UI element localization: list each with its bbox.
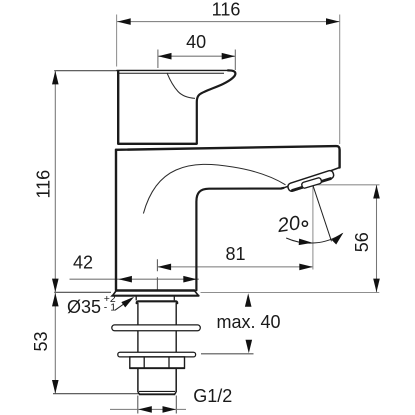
spout angled end face (284, 168, 340, 188)
base bottom edge (116, 289, 194, 291)
svg-text:Ø35: Ø35 (67, 297, 101, 317)
svg-text:40: 40 (186, 32, 206, 52)
nut (130, 357, 185, 368)
svg-text:- 1: - 1 (104, 302, 116, 314)
water stream direction line 20deg (313, 185, 332, 241)
extension line right of top 116 dim (339, 15, 341, 145)
dimension line G1/2 thread (110, 408, 186, 410)
dimension line 53 left vertical (54, 292, 56, 393)
aerator axis vertical line (312, 186, 314, 270)
washer 1 (112, 325, 201, 331)
shank mid section (138, 331, 176, 352)
washer 2 (118, 352, 196, 357)
svg-text:G1/2: G1/2 (193, 386, 232, 406)
lever surface thin curve (167, 73, 195, 99)
svg-text:max. 40: max. 40 (217, 312, 281, 332)
G1/2 extension lines (138, 396, 177, 414)
thread bottom reference line (53, 393, 140, 395)
lever top edge (117, 69, 228, 71)
handle block (117, 72, 119, 144)
base skirt (113, 291, 199, 296)
dimension line 116 left vertical (54, 71, 56, 292)
centre line of faucet axis (156, 259, 158, 291)
dimension line 81 (158, 266, 313, 268)
body surface thin curve (143, 164, 285, 213)
dimension line 40 (158, 55, 235, 57)
svg-text:42: 42 (73, 253, 93, 273)
body top edge and spout (116, 146, 340, 167)
aerator outlet (301, 177, 322, 188)
dimension line 42 (70, 278, 199, 280)
dimension line 56 (376, 185, 378, 292)
mounting surface reference line left (54, 291, 111, 293)
shank upper section (138, 303, 176, 325)
max. 40 annotation (201, 353, 254, 355)
svg-text:53: 53 (31, 331, 51, 351)
spout underside and column (196, 188, 283, 290)
svg-text:56: 56 (352, 232, 372, 252)
lever tip and underside curve (197, 70, 236, 143)
svg-text:81: 81 (225, 244, 245, 264)
dimension line 116 top (117, 21, 340, 23)
20 degree arc (286, 234, 342, 244)
svg-text:116: 116 (212, 0, 241, 20)
extension line left of top 116 dim (116, 15, 118, 67)
extension line left of 40 dim (axis) (157, 50, 159, 69)
aerator housing bottom shadow (293, 179, 331, 191)
svg-text:20: 20 (275, 212, 301, 237)
shank neck (136, 296, 174, 301)
threaded shank G1/2 (138, 368, 176, 392)
leader line for diameter (115, 298, 132, 310)
body left edge (115, 150, 117, 290)
mounting surface reference line right (201, 292, 380, 294)
aerator level reference line (315, 184, 380, 186)
extension line top of left 116 dim (54, 70, 117, 72)
shank shoulder (137, 301, 178, 303)
extension line right of 40 dim (lever tip) (234, 50, 236, 71)
svg-text:116: 116 (34, 170, 54, 199)
aerator housing (287, 170, 335, 192)
